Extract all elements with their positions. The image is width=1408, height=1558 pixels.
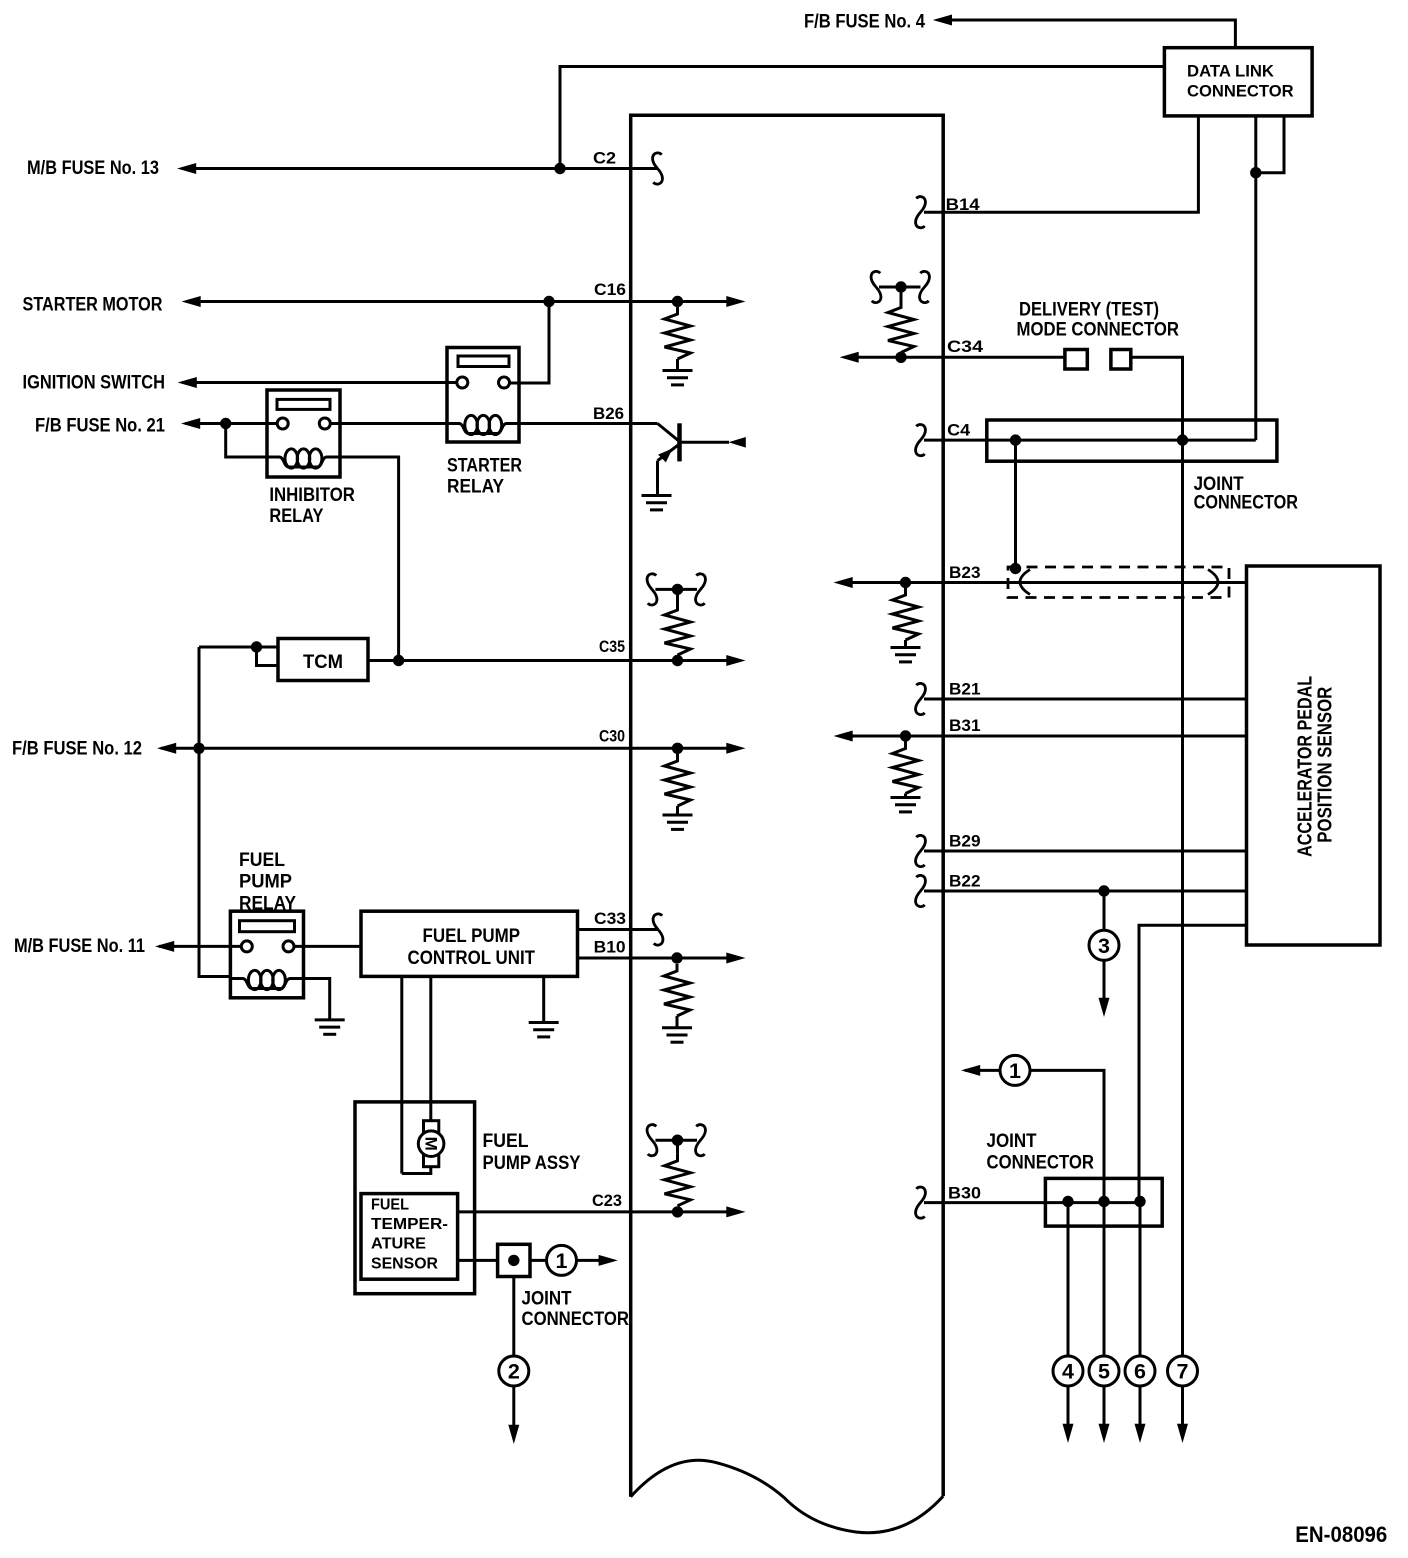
svg-text:1: 1 [1009, 1059, 1021, 1083]
arrowhead M/B FUSE No.13 [177, 163, 196, 174]
svg-text:C2: C2 [593, 149, 616, 168]
wire circled 1 (right) with left arrow [965, 1069, 1001, 1072]
junction dot C23 resistor bottom [672, 1206, 683, 1217]
wire inhibitor contact to starter relay coil to B26 [330, 422, 447, 425]
junction dot TCM pins [251, 641, 262, 652]
svg-text:C23: C23 [592, 1191, 622, 1210]
wire delivery connector to C4 node rail [1131, 357, 1183, 440]
junction dot B23 resistor [900, 577, 911, 588]
wire C30 row: F/B FUSE No.12 to ECM [161, 747, 631, 750]
svg-text:M: M [421, 1137, 440, 1151]
svg-text:C35: C35 [599, 637, 625, 656]
wire C4 left dot down to B23 shield [1014, 440, 1017, 568]
wire C33 row FPCU to ECM [578, 928, 659, 931]
svg-text:MODE CONNECTOR: MODE CONNECTOR [1017, 320, 1180, 341]
junction dot C35 resistor bottom [672, 655, 683, 666]
svg-text:RELAY: RELAY [269, 506, 323, 527]
svg-text:STARTER: STARTER [447, 456, 522, 477]
junction dot DLC pins [1250, 167, 1261, 178]
junction dot joint connector square [508, 1255, 519, 1266]
svg-text:CONNECTOR: CONNECTOR [1187, 82, 1294, 101]
wire DLC pin down to C4 joint connector [1254, 116, 1257, 440]
junction dot B10 resistor [671, 952, 682, 963]
arrowhead F/B FUSE No.21 [181, 418, 200, 429]
svg-text:C30: C30 [599, 727, 625, 746]
FUEL TEMPERATURE SENSOR box [361, 1194, 458, 1280]
junction dot C2/DLC branch [554, 163, 565, 174]
wire sensor bottom pin to joint connector [1139, 925, 1247, 1201]
wire square to circled 1 [530, 1259, 547, 1262]
svg-text:FUEL PUMP: FUEL PUMP [423, 926, 521, 947]
wire B10 row FPCU to ECM [578, 957, 631, 960]
svg-text:5: 5 [1098, 1360, 1110, 1384]
svg-text:B31: B31 [949, 716, 981, 735]
wire C23 row sensor to ECM [458, 1210, 631, 1213]
circled 1 (fuel) [547, 1245, 577, 1275]
wire DLC bottom pin loop to C4 joint connector [1256, 116, 1284, 173]
break C33 [653, 914, 663, 945]
arrowhead to F/B FUSE No.4 [933, 15, 952, 26]
wire TCM left pins jumper [257, 647, 279, 666]
pull-up jumper C34 [879, 286, 921, 289]
junction dot B22 branch [1098, 885, 1109, 896]
TCM box U2 [278, 639, 368, 681]
wire C2 row: M/B FUSE No.13 to ECM [182, 167, 658, 170]
ground C16 [663, 371, 693, 385]
svg-text:C4: C4 [947, 421, 971, 440]
wire C4 row [924, 439, 1256, 442]
svg-text:B29: B29 [949, 832, 981, 851]
junction dot B31 resistor [900, 730, 911, 741]
wire sensor pin 2 to joint connector square [458, 1259, 498, 1262]
wire B10 internal with arrow [631, 957, 729, 960]
svg-text:B21: B21 [949, 680, 981, 699]
wire B23 row with internal left arrow [849, 581, 1247, 584]
circled 7 [1168, 1356, 1198, 1386]
resistor R-C34 (up to jumper) [888, 301, 914, 353]
vertical rail to fuel pump relay coil [199, 647, 230, 977]
wire F/B FUSE No.4 to DATA LINK CONNECTOR top pin [947, 20, 1235, 48]
resistor R-B23 [893, 588, 919, 640]
break B21 [916, 683, 926, 714]
junction dot C4 left [1010, 434, 1021, 445]
ground B10 [662, 1028, 692, 1042]
transistor Q1 [642, 423, 746, 510]
wire relay coil to ground [304, 979, 330, 1020]
svg-text:TEMPER-: TEMPER- [371, 1216, 448, 1233]
circled 6 [1125, 1356, 1155, 1386]
wire motor bottom elbow [402, 1167, 431, 1174]
junction dot shield drain [1010, 563, 1021, 574]
wire M/B FUSE No.11 row to relay contact [159, 945, 242, 948]
wire starter relay contact to C16 row [510, 302, 550, 384]
svg-text:M/B FUSE No. 13: M/B FUSE No. 13 [27, 158, 159, 179]
wire B31 row with internal left arrow [849, 735, 1247, 738]
svg-text:PUMP ASSY: PUMP ASSY [483, 1153, 581, 1174]
ACCELERATOR PEDAL POSITION SENSOR box [1247, 566, 1381, 945]
wire inhibitor coil to TCM node [340, 457, 399, 661]
svg-text:CONTROL UNIT: CONTROL UNIT [408, 948, 536, 969]
svg-text:6: 6 [1134, 1360, 1146, 1384]
svg-text:C16: C16 [594, 280, 626, 299]
svg-text:PUMP: PUMP [239, 872, 292, 893]
arrowhead STARTER MOTOR [182, 296, 201, 307]
circled 1 (right) [1000, 1055, 1030, 1085]
svg-text:CONNECTOR: CONNECTOR [1194, 493, 1299, 514]
svg-text:B23: B23 [949, 563, 981, 582]
junction dot F/B21 coil branch [220, 418, 231, 429]
svg-text:FUEL: FUEL [371, 1196, 409, 1213]
wire C23 internal with arrow [631, 1210, 729, 1213]
starter relay K2 [447, 348, 520, 443]
arrowhead F/B FUSE No.12 [157, 743, 176, 754]
ground C30 [663, 815, 693, 829]
wire C30 internal with arrow [631, 747, 729, 750]
wire C35 row TCM to ECM [368, 659, 631, 662]
svg-text:RELAY: RELAY [447, 477, 504, 498]
arrowhead M/B FUSE No.11 [155, 941, 174, 952]
resistor R-C30 [665, 754, 691, 806]
arrowhead IGNITION SWITCH [178, 377, 197, 388]
wire F/B21 branch down to inhibitor coil [226, 424, 267, 458]
break C4 [916, 425, 926, 456]
wire F/B FUSE No.21 row to inhibitor relay contact [185, 422, 277, 425]
svg-text:CONNECTOR: CONNECTOR [987, 1153, 1095, 1174]
DELIVERY (TEST) MODE CONNECTOR [1017, 300, 1180, 370]
svg-text:B22: B22 [949, 872, 981, 891]
circled 2 [499, 1356, 529, 1386]
junction dot C34 resistor bottom [895, 352, 906, 363]
svg-text:C34: C34 [947, 337, 984, 356]
JOINT CONNECTOR box (B30) [1045, 1178, 1162, 1226]
junction dot rail/C30 [193, 743, 204, 754]
resistor R-C23 (up to jumper) [665, 1154, 691, 1206]
wire B30 row [924, 1201, 1140, 1204]
wire square down to circled 2 [512, 1277, 515, 1357]
FPCU pins down to fuel pump motor [400, 976, 403, 1173]
svg-text:FUEL: FUEL [483, 1131, 529, 1152]
circled 5 [1089, 1356, 1119, 1386]
wire TCM supply from vertical rail [199, 646, 257, 649]
wire B26 row: starter relay coil to transistor base [519, 422, 658, 425]
circled 3 [1089, 930, 1119, 960]
svg-text:2: 2 [508, 1360, 520, 1384]
svg-text:B10: B10 [594, 938, 626, 957]
resistor R-B10 [664, 964, 690, 1016]
svg-text:TCM: TCM [303, 652, 343, 673]
junction dot C30 resistor [672, 743, 683, 754]
svg-text:ATURE: ATURE [371, 1236, 426, 1253]
svg-text:IGNITION SWITCH: IGNITION SWITCH [23, 373, 166, 394]
wire B22 branch down to circled 3 [1103, 891, 1106, 931]
svg-text:B14: B14 [946, 195, 981, 214]
svg-text:EN-08096: EN-08096 [1295, 1522, 1387, 1547]
wire DLC bottom pin to B14 [924, 116, 1198, 212]
wire C16 row: STARTER MOTOR to ECM [186, 300, 631, 303]
inhibitor relay K1 [267, 390, 340, 477]
svg-text:C33: C33 [594, 909, 626, 928]
FUEL PUMP CONTROL UNIT box U3 [361, 911, 578, 976]
junction dot C4 right [1177, 434, 1188, 445]
FUEL PUMP ASSY outer box [355, 1102, 475, 1294]
circled 4 [1053, 1356, 1083, 1386]
svg-text:4: 4 [1062, 1360, 1074, 1384]
svg-text:DELIVERY (TEST): DELIVERY (TEST) [1019, 300, 1159, 321]
svg-text:POSITION SENSOR: POSITION SENSOR [1314, 687, 1337, 843]
break C2 [653, 153, 663, 184]
shield dashed box B23 [1008, 567, 1229, 598]
wire C34 row with internal left arrow [855, 356, 1065, 359]
wires circled 4 5 6 7 down arrows [1067, 1386, 1070, 1427]
ground B31 [891, 798, 921, 812]
junction dot starter relay branch [543, 296, 554, 307]
svg-text:F/B FUSE No. 12: F/B FUSE No. 12 [12, 739, 142, 760]
svg-text:JOINT: JOINT [987, 1131, 1037, 1152]
break B14 [916, 197, 926, 228]
wires joint connector down to circled 4 5 6 [1067, 1202, 1070, 1357]
svg-text:DATA LINK: DATA LINK [1187, 62, 1275, 81]
wire relay contact to FPCU [294, 945, 361, 948]
fuel pump motor M1 [418, 1121, 444, 1167]
svg-text:7: 7 [1177, 1360, 1189, 1384]
junction dot C16 resistor [672, 296, 683, 307]
svg-text:B30: B30 [948, 1184, 981, 1203]
wire C16 internal with arrow [631, 300, 729, 303]
ground B23 [891, 648, 921, 662]
break B29 [916, 835, 926, 866]
svg-text:1: 1 [556, 1249, 568, 1273]
JOINT CONNECTOR box (C4) [987, 420, 1277, 461]
DATA LINK CONNECTOR box U1 [1164, 48, 1312, 116]
svg-text:INHIBITOR: INHIBITOR [269, 485, 355, 506]
pull-up jumper C23 [655, 1139, 697, 1142]
wire C35 internal with arrow [631, 659, 729, 662]
wire B21 row [924, 698, 1247, 701]
svg-text:STARTER MOTOR: STARTER MOTOR [23, 295, 163, 316]
wire circled 1 to joint connector [1029, 1070, 1104, 1201]
pull-up jumper C35 [655, 588, 697, 591]
junction dots B30 joint connector [1062, 1196, 1073, 1207]
svg-text:SENSOR: SENSOR [371, 1256, 438, 1273]
svg-text:B26: B26 [593, 404, 624, 423]
resistor R-B31 [893, 742, 919, 794]
junction dot inhibitor branch on C35 wire [393, 655, 404, 666]
wire circled 3 down arrow [1103, 960, 1106, 999]
svg-text:M/B FUSE No. 11: M/B FUSE No. 11 [14, 936, 145, 957]
wire B29 row [924, 850, 1247, 853]
svg-text:F/B FUSE No. 4: F/B FUSE No. 4 [804, 12, 925, 33]
wire circled 1 to arrow [576, 1259, 601, 1262]
svg-text:3: 3 [1098, 934, 1110, 958]
svg-text:JOINT: JOINT [522, 1289, 572, 1310]
wire C4 right dot down to circled 7 [1181, 440, 1184, 1357]
resistor R-C16 [665, 307, 691, 359]
ECM main unit box (open wavy bottom) [631, 115, 944, 1533]
FPCU ground pin [542, 976, 545, 1022]
wire B22 row [924, 890, 1247, 893]
svg-text:F/B FUSE No. 21: F/B FUSE No. 21 [35, 416, 165, 437]
break B30 [916, 1187, 926, 1218]
svg-text:CONNECTOR: CONNECTOR [522, 1309, 630, 1330]
svg-text:FUEL: FUEL [239, 850, 285, 871]
wire circled 2 down arrow [512, 1386, 515, 1428]
joint connector square (fuel) [498, 1244, 530, 1276]
wire DLC left pin to node above C2 [560, 67, 1164, 169]
resistor R-C35 (up to jumper) [665, 603, 691, 655]
fuel pump relay K3 [230, 911, 303, 998]
break B22 [916, 875, 926, 906]
wire IGNITION SWITCH row [182, 381, 457, 384]
ground fuel pump relay [315, 1020, 345, 1034]
